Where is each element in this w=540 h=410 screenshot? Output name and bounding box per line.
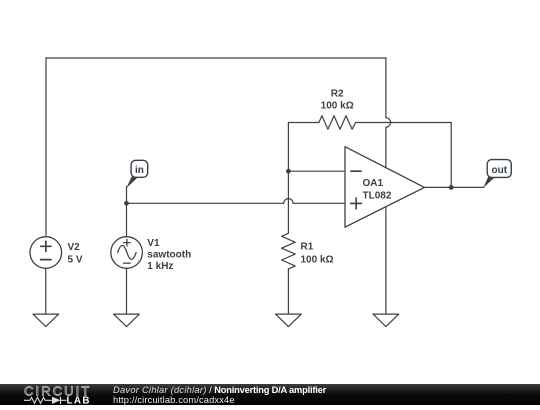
svg-text:V2: V2 [68,242,81,253]
svg-text:5 V: 5 V [68,255,83,266]
svg-text:sawtooth: sawtooth [147,250,191,261]
svg-text:V1: V1 [147,238,160,249]
svg-text:TL082: TL082 [363,190,392,201]
svg-text:R1: R1 [301,242,314,253]
svg-text:out: out [492,165,508,176]
svg-text:OA1: OA1 [363,178,384,189]
svg-text:R2: R2 [331,89,344,100]
svg-text:in: in [135,165,144,176]
svg-text:100 kΩ: 100 kΩ [301,254,334,265]
svg-text:LAB: LAB [67,396,91,406]
svg-text:100 kΩ: 100 kΩ [321,101,354,112]
svg-text:1 kHz: 1 kHz [147,261,173,272]
